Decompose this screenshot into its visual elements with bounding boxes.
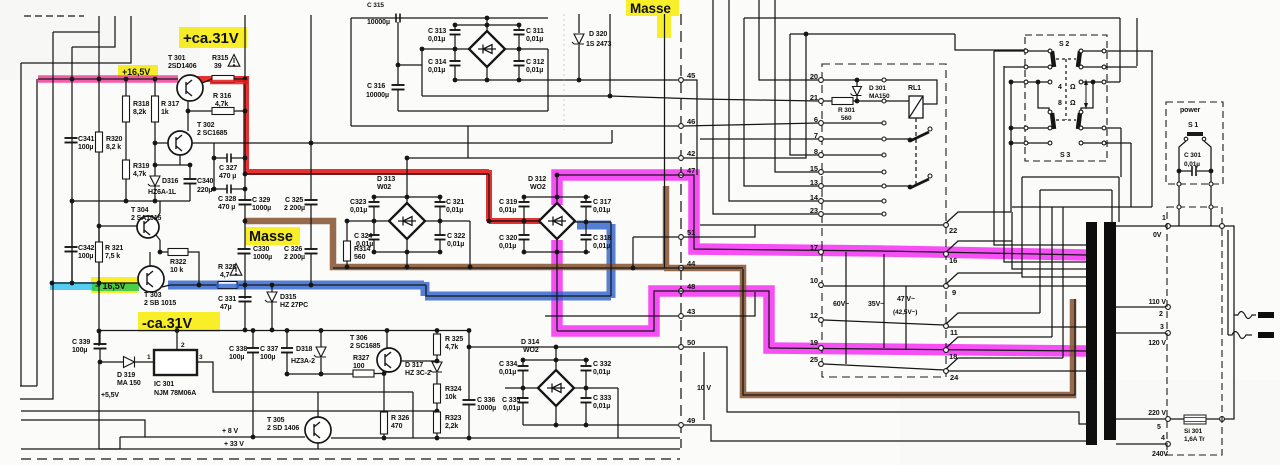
svg-text:D316: D316 [162,178,179,185]
transistor T301 [177,75,203,101]
zener D317 [430,362,442,372]
switch links dash [1056,58,1076,60]
wire red drop x489 [488,174,490,221]
svg-text:C330: C330 [253,246,270,253]
bridge rectifier D313 [389,203,425,239]
wire vertical x213 [213,143,215,189]
highlight red +31V trace [196,76,540,221]
svg-text:7,5 k: 7,5 k [105,253,120,260]
wire bottom y438 [331,437,680,439]
wire vertical x72 [71,47,73,283]
svg-text:0,01µ: 0,01µ [593,207,610,214]
svg-text:560: 560 [354,254,366,261]
svg-text:0,01µ: 0,01µ [526,67,543,74]
svg-text:8,2 k: 8,2 k [106,144,121,151]
wire magenta1 black core [557,175,1086,255]
capacitor C329 [239,200,252,205]
wire y143 long line [214,142,612,144]
svg-text:0,01µ: 0,01µ [446,207,463,214]
svg-text:D 312: D 312 [528,176,546,183]
diode D301 [856,80,858,86]
wire brown black core right [743,269,1075,395]
wire y190 line [1040,189,1112,191]
pin 6 relay row [819,121,824,126]
svg-text:Ω: Ω [1070,100,1076,107]
svg-text:MA 150: MA 150 [117,380,141,387]
svg-text:+ 8 V: + 8 V [222,428,238,435]
transistor T302 [168,131,192,155]
pin 12 [819,318,824,323]
resistor R314 [346,221,348,241]
wire T304 emitter down [156,235,160,240]
svg-text:C 318: C 318 [593,235,611,242]
wire T306 to D317 [401,360,437,362]
svg-text:47 V~: 47 V~ [897,296,915,303]
svg-text:C 329: C 329 [252,197,270,204]
svg-text:3: 3 [199,354,203,361]
svg-text:R 301: R 301 [838,107,855,114]
S3 contact bars [1052,113,1054,129]
S2 row A links [1028,50,1048,52]
pin 48 [679,289,684,294]
svg-text:C 322: C 322 [447,233,465,240]
svg-text:C 326: C 326 [284,246,302,253]
pin 18 [944,348,949,353]
svg-text:7: 7 [814,131,818,140]
pin 50 [679,345,684,350]
svg-text:100µ: 100µ [72,347,87,354]
wire y374 line [287,373,353,375]
svg-text:T 302: T 302 [197,122,215,129]
bridge bottom stub [486,67,488,80]
svg-text:R 321: R 321 [105,245,123,252]
svg-text:50: 50 [687,338,695,347]
wire vertical x245 C329 chain [244,174,246,200]
transistor T304 [137,216,159,238]
D312 top row [524,196,590,198]
svg-text:C 312: C 312 [526,59,544,66]
svg-text:C 316: C 316 [367,83,385,90]
capacitor C320 [523,221,525,235]
capacitor C341 [65,138,78,143]
resistor R325 [434,334,441,355]
wire vertical x744 to row13 [744,18,818,186]
wire row7 line [700,138,818,140]
svg-text:1000µ: 1000µ [252,205,271,212]
svg-text:D 313: D 313 [377,176,395,183]
wire 45 to 47 corner [684,80,697,175]
svg-text:R 317: R 317 [161,101,179,108]
D314 bottom stub [555,405,557,425]
wire x1052 drop [1051,207,1053,337]
highlight green segment [92,283,139,291]
wire IC pin2 [176,331,178,350]
svg-text:60V~: 60V~ [833,301,849,308]
capacitor C311 [518,25,520,30]
capacitor C315 [396,14,400,23]
S2 row exits right [1106,50,1153,52]
svg-text:10 k: 10 k [170,267,183,274]
svg-text:C342: C342 [78,245,95,252]
svg-text:120 V: 120 V [1148,340,1166,347]
svg-text:100µ: 100µ [78,253,93,260]
diode D319 [100,361,123,363]
wire vertical x759 to row20 [759,0,818,80]
svg-text:C 301: C 301 [1184,152,1201,159]
wire top line y18 [351,17,548,19]
capacitor C313 [454,25,456,30]
wire vertical x729 to row14 [729,0,818,201]
svg-text:46: 46 [687,117,695,126]
wire 49 line [523,424,678,426]
svg-text:R314: R314 [354,246,371,253]
wire 42 line y158 [407,157,678,159]
svg-text:C 338: C 338 [229,346,247,353]
yellow label Masse middle [245,227,300,245]
svg-text:10k: 10k [445,394,457,401]
capacitor C328 [214,188,227,190]
pin 45 [679,78,684,83]
wire dashed border bottom [21,458,680,460]
svg-text:1k: 1k [161,109,169,116]
pin 44 [679,266,684,271]
svg-text:C340: C340 [197,178,214,185]
highlight brown Masse trace [244,186,1073,395]
svg-text:39: 39 [214,63,222,70]
svg-text:4,7: 4,7 [220,272,230,279]
svg-text:+5,5V: +5,5V [101,392,119,399]
svg-text:− 16,5V: − 16,5V [95,281,126,291]
capacitor C342 [65,247,78,252]
svg-text:S 3: S 3 [1060,152,1070,159]
highlight magenta trace 48/19/18 [557,240,1086,351]
wire tap y262 [1004,66,1086,262]
capacitor C333 [585,388,587,398]
svg-text:Ω: Ω [1070,84,1076,91]
svg-text:1: 1 [147,354,151,361]
wire vertical x311 [310,15,312,143]
capacitor C325 [305,200,318,205]
svg-text:9: 9 [952,288,956,297]
svg-text:R324: R324 [445,386,462,393]
primary tap 110V [1116,306,1166,308]
svg-text:C 331: C 331 [218,296,236,303]
svg-text:8: 8 [814,147,818,156]
svg-text:100: 100 [353,363,365,370]
resistor R316 [212,108,234,115]
wire T306 emitter to R326 [383,372,385,412]
wire T302 emitter [179,155,181,165]
svg-text:0,01µ: 0,01µ [447,241,464,248]
svg-text:100µ: 100µ [229,354,244,361]
svg-text:R327: R327 [353,355,370,362]
svg-text:6: 6 [814,115,818,124]
svg-text:0,01µ: 0,01µ [499,369,516,376]
switch circles [1024,49,1028,53]
wire 46 line y126 [351,125,678,127]
wire y111 line [398,110,548,112]
pin 24 [944,369,949,374]
wire vertical x99 chain [98,32,100,132]
svg-text:HZ6A-1L: HZ6A-1L [148,189,177,196]
resistor R327 [353,370,374,377]
wire vertical x53 [52,32,54,283]
wire y411 line [21,410,437,412]
pin 9 [944,284,949,289]
svg-text:8: 8 [1058,100,1062,107]
wire x955 step [955,34,1024,50]
pin 51 [679,235,684,240]
pin 22 [944,223,949,228]
wire IC pin3 route [197,362,413,392]
S2 contact bars [1052,51,1054,67]
svg-text:21: 21 [810,93,818,102]
wire 51 line [633,236,678,238]
resistor R326 [381,412,388,434]
wire vertical x21 [20,63,22,386]
capacitor C331 [244,285,246,299]
yellow label Masse top with strip [626,0,679,16]
primary tap 240V [1116,443,1166,445]
svg-text:C 333: C 333 [593,395,611,402]
pin 14 relay row [819,199,824,204]
wire x1011 vertical [1010,82,1012,212]
zener D315 [265,292,277,302]
resistor R318 [123,96,130,122]
svg-text:2: 2 [181,342,185,349]
wire y330 rail [100,330,470,332]
wire y65 stub [398,64,422,66]
svg-text:100µ: 100µ [260,354,275,361]
pin 21 relay row [819,99,824,104]
resistor R323 [434,412,441,433]
pin 17 [819,250,824,255]
svg-text:14: 14 [810,193,819,202]
wire vertical x790 to row8 [790,34,818,155]
relay box dashed [822,64,946,377]
svg-text:C 336: C 336 [477,397,495,404]
pin 46 [679,124,684,129]
transformer core bar right [1104,222,1116,440]
svg-text:8,2k: 8,2k [133,109,146,116]
wire x1131 drop [1130,143,1132,207]
S2 row C jog [1028,81,1048,83]
svg-text:2 SB 1015: 2 SB 1015 [144,300,176,307]
capacitor C326 [305,249,318,254]
svg-text:12: 12 [810,311,818,320]
svg-text:C 327: C 327 [219,165,237,172]
svg-text:C 339: C 339 [72,339,90,346]
wire vertical x311 [310,143,312,200]
primary tap 0V [1116,225,1166,227]
wire 43 line [545,315,678,317]
wire T303 emitter blue line y285 [162,285,170,287]
wire blue vertical x611 [610,222,612,296]
capacitor C340 [184,179,197,184]
pin 11 [944,324,949,329]
wire x1112 to transformer [1111,190,1113,222]
wire dashed top-left [24,15,84,17]
highlight blue -16,5V trace [168,224,611,298]
yellow label +16,5V [118,65,158,78]
yellow label +ca.31V [179,27,247,48]
wire T306 collector [386,331,388,349]
wire step 1 [53,16,99,32]
svg-text:RL1: RL1 [908,85,921,92]
pin 8 relay row [819,153,824,158]
svg-text:power: power [1180,107,1200,114]
svg-text:560: 560 [841,115,852,122]
transistor T303 [138,266,164,292]
svg-text:35V~: 35V~ [868,301,884,308]
svg-text:1: 1 [1162,215,1166,222]
wire 50 line [469,346,678,348]
svg-text:Masse: Masse [249,229,293,245]
svg-text:Masse: Masse [630,1,671,16]
wire R322 to blue node [188,252,199,285]
pin 15 relay row [819,170,824,175]
svg-text:13: 13 [810,178,818,187]
svg-text:3: 3 [1160,324,1164,331]
capacitor C322 [439,221,441,235]
svg-text:T 304: T 304 [131,207,149,214]
capacitor C319 [523,197,525,202]
wire T302 collector to x213 [192,142,214,144]
wire y201 line [72,200,190,202]
wire y420 step line [21,420,145,437]
pin 19 [819,346,824,351]
svg-text:C 314: C 314 [428,59,446,66]
wire T305 emitter [317,443,319,449]
wire x413 drop [412,392,414,438]
svg-text:45: 45 [687,71,695,80]
svg-text:4,7k: 4,7k [133,171,146,178]
svg-text:4,7k: 4,7k [215,101,228,108]
mains connector dashed box [1167,207,1222,455]
svg-text:10: 10 [810,276,818,285]
wire 0V link [1170,225,1220,227]
svg-text:R322: R322 [170,259,187,266]
wire top line y18 [744,17,1120,19]
svg-text:C 321: C 321 [446,199,464,206]
wire x1152 drop [1151,51,1153,207]
D313 top row [374,196,440,198]
capacitor C330 [238,249,251,254]
svg-text:23: 23 [810,206,818,215]
pin 10 [819,283,824,288]
svg-text:22: 22 [949,226,957,235]
pin 47 [679,173,684,178]
wire x618 down [617,388,619,438]
pin 7 relay row [819,137,824,142]
bridge rectifier D312 [539,203,575,239]
svg-text:C323: C323 [350,199,367,206]
wire +8V line y437 [120,436,305,438]
wire y207 line [1012,206,1152,208]
capacitor C339 [99,331,101,345]
warning triangle near R315 [228,55,240,67]
relay contact arm 1 [886,138,909,140]
capacitor C318 [585,222,587,235]
capacitor C321 [439,197,441,202]
svg-text:C 332: C 332 [593,361,611,368]
svg-text:+ 33 V: + 33 V [224,441,244,448]
svg-text:D 319: D 319 [117,372,135,379]
svg-text:48: 48 [687,282,695,291]
wire x1120 from top [1119,18,1121,82]
wire exit stub x53 bottom [20,283,53,399]
svg-text:15: 15 [810,164,818,173]
warning triangle R328 [230,264,242,276]
wire vertical x213 pin3 [212,330,214,333]
wire magenta2 black core [769,348,1086,351]
resistor R320 [96,132,103,152]
transformer core bar left [1086,222,1097,445]
svg-text:C 311: C 311 [526,28,544,35]
svg-text:220µ: 220µ [197,187,212,194]
pin 42 [679,156,684,161]
svg-text:0,01µ: 0,01µ [499,207,516,214]
svg-text:4,7k: 4,7k [445,344,458,351]
wire exit stub y386 [20,385,37,387]
svg-text:C341: C341 [78,136,95,143]
svg-text:-ca.31V: -ca.31V [142,316,193,332]
svg-text:R 326: R 326 [391,415,409,422]
connector dashed line x681 [680,14,682,448]
svg-text:0,01µ: 0,01µ [593,243,610,250]
pin 43 [679,314,684,319]
bridge rectifier top (C311-C314 group) [469,31,505,67]
svg-text:C 315: C 315 [367,2,384,9]
relay linkage dash-dot [915,118,917,186]
svg-text:10000µ: 10000µ [367,19,390,26]
resistor R324 [434,384,441,403]
wire vertical x470 [469,221,471,267]
svg-text:C 317: C 317 [593,199,611,206]
resistor R328 [218,282,237,289]
yellow label -16,5V [91,277,138,293]
svg-text:NJM 78M06A: NJM 78M06A [154,390,196,397]
svg-text:D315: D315 [280,294,297,301]
power box dashed [1166,102,1223,184]
svg-text:C 313: C 313 [428,28,446,35]
wire cord 2 vertical [1227,230,1229,335]
wire blue step [426,285,611,296]
pin 25 [819,362,824,367]
svg-text:0,01µ: 0,01µ [593,403,610,410]
svg-text:T 305: T 305 [267,417,285,424]
red marker overlay on R315 [210,80,248,85]
capacitor C317 [585,197,587,202]
wire T304 base [99,225,137,227]
primary tap 120V [1116,332,1166,334]
wire T304 collector up [156,213,160,219]
resistor R315 [212,76,234,83]
svg-text:47: 47 [687,166,695,175]
S2 row exits left [994,50,1024,52]
svg-text:16: 16 [949,256,957,265]
relay RL1 [909,96,923,118]
resistor R321 [96,242,103,262]
wire 48 line black [557,291,769,348]
svg-text:42: 42 [687,149,695,158]
svg-text:0,01µ: 0,01µ [593,369,610,376]
highlight magenta trace 47/17/16 [557,175,1086,255]
svg-text:2 SD 1406: 2 SD 1406 [267,425,299,432]
svg-text:C 320: C 320 [499,235,517,242]
capacitor C332 [585,360,587,366]
svg-text:C 324: C 324 [354,233,372,240]
